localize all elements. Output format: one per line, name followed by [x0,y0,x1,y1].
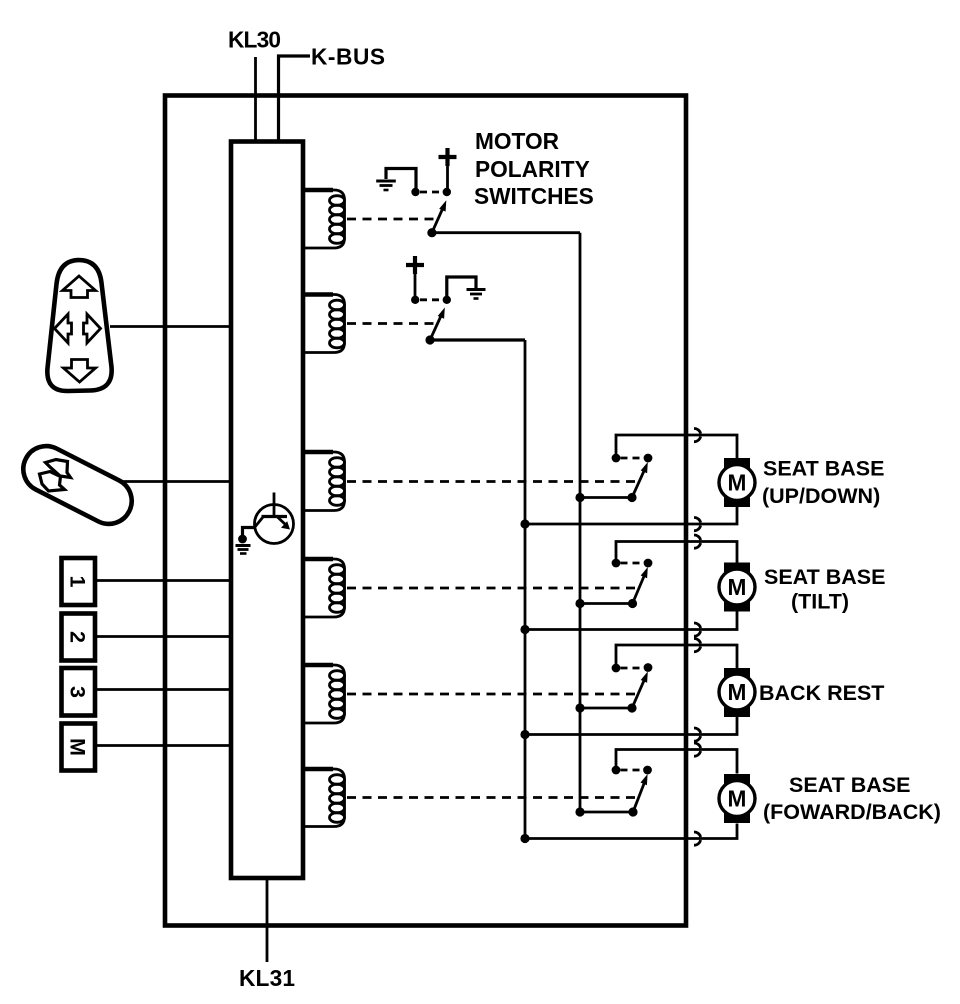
ECU seat control unit [231,142,303,879]
svg-text:1: 1 [66,576,90,588]
memory button 3 [62,668,96,716]
module boundary box [165,96,686,926]
dashed link coil K1 to S1 [347,218,438,221]
wire S5 lower feed from bus B [520,717,737,740]
svg-text:M: M [728,786,747,812]
connector pin (M4 bottom) [694,832,701,845]
svg-text:K-BUS: K-BUS [311,44,385,70]
relay coil K5 [303,665,345,723]
svg-text:SWITCHES: SWITCHES [474,183,594,209]
wire KL30 [254,57,257,141]
motor switch S3 (seat base up/down) [575,435,737,502]
polarity switch S2 [411,296,451,345]
seat adjust rocker switch icon [47,260,111,391]
bus A vertical [579,233,582,812]
wire S1 pivot to bus A [432,231,580,234]
motor M1 [719,458,755,507]
svg-text:M: M [728,679,747,705]
wire rocker icon to ECU [110,325,231,328]
motor M4 [719,774,755,823]
seat tilt switch icon [15,438,139,532]
memory button M [62,724,96,771]
wire button 1 to ECU [95,579,231,582]
memory button 1 [62,558,96,605]
motor M2 [719,563,755,612]
motor M3 [719,668,755,717]
wire button 2 to ECU [95,635,231,638]
connector pin (M3 bottom) [694,728,701,741]
wire tilt icon to ECU [120,480,231,483]
svg-text:(TILT): (TILT) [791,590,849,614]
svg-text:KL31: KL31 [239,965,295,991]
wire button M to ECU [95,744,231,747]
connector pin (M4 top) [694,743,701,756]
motor switch S5 (back rest) [575,645,737,713]
dashed link coil K4 to S4 [347,587,638,590]
svg-text:M: M [728,470,747,496]
dashed link coil K2 to S2 [347,322,437,325]
wire S3 lower feed from bus B [520,507,737,529]
wire S6 lower feed from bus B [520,824,737,844]
svg-text:2: 2 [66,631,90,643]
dashed link coil K5 to S5 [347,693,638,696]
relay coil K1 [303,190,345,248]
svg-text:KL30: KL30 [228,27,281,53]
wire S4 lower feed from bus B [520,611,737,634]
svg-text:POLARITY: POLARITY [475,156,590,182]
connector pin (M1 top) [694,428,701,441]
transistor Q1 [255,493,294,544]
ground (polarity switch S1) [376,169,416,191]
plus supply (polarity switch S2) [406,256,424,297]
svg-text:(FOWARD/BACK): (FOWARD/BACK) [763,800,941,824]
svg-text:BACK REST: BACK REST [759,681,884,705]
relay coil K6 [303,769,345,827]
relay coil K4 [303,559,345,617]
motor switch S4 (seat base tilt) [575,542,737,609]
svg-text:SEAT BASE: SEAT BASE [789,773,910,797]
connector pin (M2 top) [694,535,701,548]
svg-text:(UP/DOWN): (UP/DOWN) [762,484,880,508]
svg-text:3: 3 [66,686,90,698]
motor switch S6 (seat base forward/back) [575,750,737,817]
svg-text:SEAT BASE: SEAT BASE [764,565,885,589]
connector pin (M1 bottom) [694,517,701,530]
svg-text:M: M [66,738,90,756]
wire S2 pivot to bus B [430,338,525,341]
svg-text:M: M [728,574,747,600]
polarity switch S1 [411,188,451,237]
junction dot Q1 ground [238,535,247,544]
ground (polarity switch S2) [447,277,486,299]
relay coil K3 [303,452,345,511]
connector pin (M3 top) [694,638,701,651]
wire button 3 to ECU [95,688,231,691]
bus B vertical [524,340,527,839]
svg-text:SEAT BASE: SEAT BASE [763,457,884,481]
dashed link coil K6 to S6 [347,796,639,799]
memory button 2 [62,614,96,661]
ground (Q1) [236,546,251,554]
plus supply (polarity switch S1) [439,148,457,190]
dashed link coil K3 to S3 [347,480,638,483]
wire K-BUS [279,56,311,141]
relay coil K2 [303,295,345,353]
wire KL31 [266,878,269,962]
svg-text:MOTOR: MOTOR [475,128,559,154]
wire Q1 emitter [243,528,255,540]
connector pin (M2 bottom) [694,623,701,636]
